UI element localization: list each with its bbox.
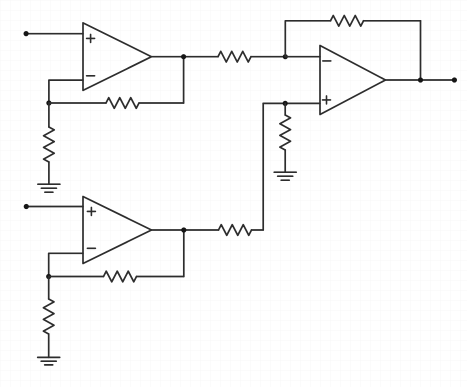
wire U3 output [386,79,455,81]
node U3 + input [283,101,288,106]
node U1 output [181,54,186,59]
ground G3 [274,172,296,180]
wire U1 -input to node1 [49,80,83,103]
node U3 output junction [418,77,423,82]
wire U3 feedback left vertical [285,21,330,57]
op-amp U1 [83,23,152,91]
wire U2 output [152,229,219,231]
resistor R2 (U1 feedback) [49,98,184,109]
resistor R8 (U2 out to U3 +) [219,225,264,236]
wire feedback vertical U1 [183,57,185,103]
wire U2 +input [26,206,83,208]
wire U3 feedback right vertical [420,21,422,80]
node 1 [46,100,51,105]
resistor R7 (U2 feedback) [49,271,184,282]
wire U1 +input [26,33,83,35]
resistor R4 (U2 ground leg) [43,277,54,358]
resistor R1 (U1 ground leg) [44,103,55,184]
node output terminal [452,77,457,82]
node 2 [46,274,51,279]
ground G2 [38,357,60,365]
op-amp U3 [320,46,386,115]
wire feedback vertical U2 [183,230,185,277]
wire U1 output [152,56,219,58]
resistor R5 (U3 feedback) [331,16,421,27]
wire U2 -input to node2 [49,253,83,276]
op-amp U2 [83,197,152,264]
node U2 output [181,227,186,232]
node input A [24,31,29,36]
node input B [24,204,29,209]
wire U3 +input [263,102,320,104]
resistor R3 (U1 out to U3 -) [218,51,285,62]
ground G1 [38,184,60,192]
node U3 - input [283,54,288,59]
resistor R6 (U3 + to ground) [280,103,291,172]
wire vertical U2 out to U3 + [262,103,264,230]
wire U3 -input [285,56,320,58]
